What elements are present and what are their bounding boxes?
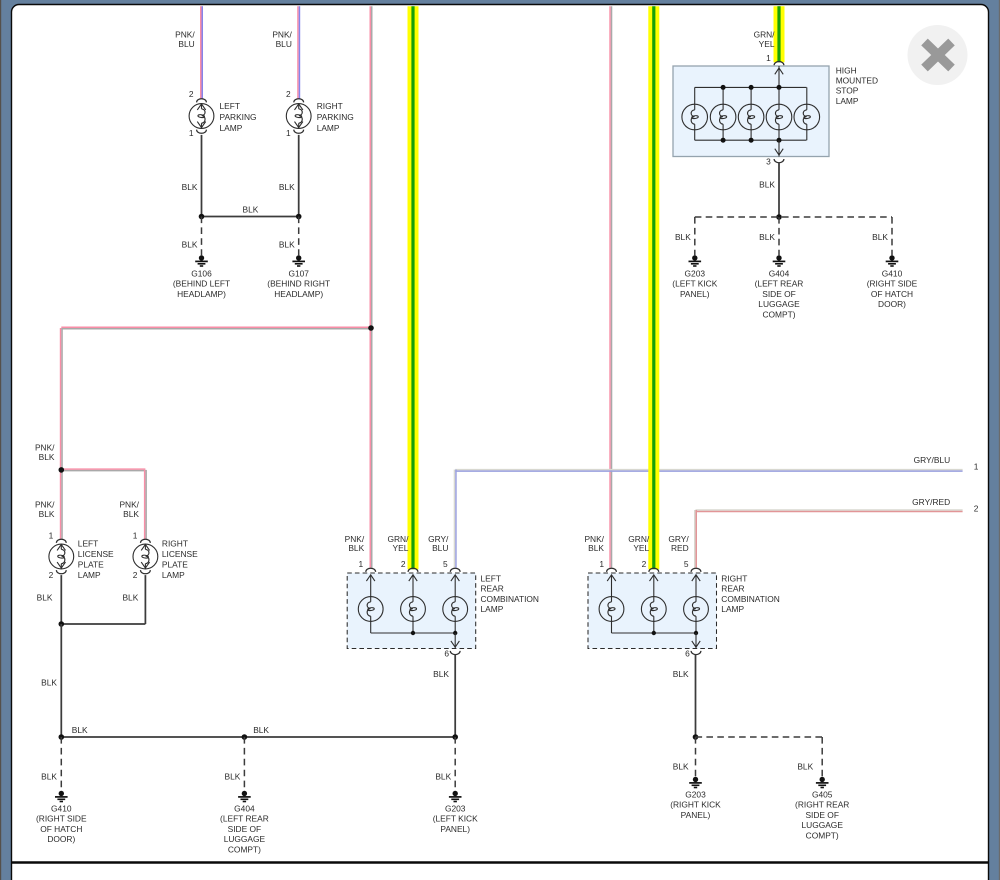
svg-text:PANEL): PANEL) <box>440 824 470 834</box>
svg-text:SIDE OF: SIDE OF <box>228 824 262 834</box>
svg-text:BLU: BLU <box>178 39 194 49</box>
svg-text:COMBINATION: COMBINATION <box>481 594 539 604</box>
svg-text:DOOR): DOOR) <box>878 299 906 309</box>
svg-text:BLK: BLK <box>123 509 139 519</box>
svg-text:BLK: BLK <box>675 232 691 242</box>
wire PNK/BLK to right license plate lamp <box>61 468 145 470</box>
svg-text:BLK: BLK <box>39 509 55 519</box>
svg-text:1: 1 <box>599 559 604 569</box>
ground G405 <box>820 777 825 782</box>
ground G410 (bottom) <box>59 791 64 796</box>
svg-text:1: 1 <box>133 531 138 541</box>
svg-text:LICENSE: LICENSE <box>78 549 114 559</box>
svg-text:REAR: REAR <box>481 584 504 594</box>
svg-text:YEL: YEL <box>393 543 409 553</box>
wire BLK below left parking lamp <box>201 135 203 217</box>
ground G404 (stop lamp) <box>776 255 781 260</box>
lamp assembly LEFT REAR COMBINATION LAMP <box>347 573 476 649</box>
svg-text:BLK: BLK <box>41 771 57 781</box>
svg-text:BLK: BLK <box>433 669 449 679</box>
node license lamp grounds join <box>59 621 65 627</box>
svg-text:OF HATCH: OF HATCH <box>871 289 913 299</box>
svg-text:BLK: BLK <box>435 771 451 781</box>
wire PNK/BLK to right rear combination lamp pin 1 <box>609 6 611 568</box>
lamp LEFT PARKING LAMP <box>189 99 214 134</box>
svg-text:G203: G203 <box>685 269 706 279</box>
svg-text:GRY/RED: GRY/RED <box>912 497 950 507</box>
svg-text:PLATE: PLATE <box>162 560 188 570</box>
svg-text:BLK: BLK <box>225 771 241 781</box>
connector arc pin 3 stop lamp <box>774 159 784 163</box>
wire BLK dashed bus to G405 <box>696 736 823 738</box>
svg-text:RIGHT: RIGHT <box>317 101 343 111</box>
svg-text:BLK: BLK <box>243 204 259 214</box>
wire BLK dashed to G405 <box>821 737 823 776</box>
lamp assembly RIGHT REAR COMBINATION LAMP <box>588 573 717 649</box>
svg-text:LUGGAGE: LUGGAGE <box>801 820 843 830</box>
wire BLK dashed to G404 <box>243 737 245 791</box>
svg-text:(RIGHT KICK: (RIGHT KICK <box>670 800 721 810</box>
ground G107 <box>296 255 301 260</box>
wire BLK dashed to G107 <box>298 217 300 256</box>
wire BLK dashed to G203 <box>454 737 456 791</box>
svg-text:(RIGHT SIDE: (RIGHT SIDE <box>867 279 918 289</box>
svg-text:G405: G405 <box>812 790 833 800</box>
svg-text:LAMP: LAMP <box>78 570 101 580</box>
svg-text:RIGHT: RIGHT <box>162 539 188 549</box>
svg-text:LAMP: LAMP <box>317 123 340 133</box>
svg-text:5: 5 <box>684 559 689 569</box>
svg-text:1: 1 <box>189 128 194 138</box>
svg-text:(RIGHT SIDE: (RIGHT SIDE <box>36 814 87 824</box>
wire PNK/BLK branch to license lamps <box>61 326 371 328</box>
svg-text:1: 1 <box>766 53 771 63</box>
svg-text:G203: G203 <box>685 790 706 800</box>
connector arcs pins 1,2,5 <box>366 568 376 572</box>
svg-text:BLK: BLK <box>122 592 138 602</box>
wire BLK dashed to G203 <box>694 217 696 255</box>
wire PNK/BLK to left license plate lamp <box>60 470 62 539</box>
wire BLK below stop lamp <box>778 163 780 217</box>
wire PNK/BLU to left parking lamp <box>200 6 202 98</box>
svg-text:BLK: BLK <box>588 543 604 553</box>
svg-text:LEFT: LEFT <box>481 574 501 584</box>
svg-text:HEADLAMP): HEADLAMP) <box>274 289 323 299</box>
svg-text:BLK: BLK <box>41 677 57 687</box>
svg-text:BLK: BLK <box>673 761 689 771</box>
svg-text:G404: G404 <box>769 269 790 279</box>
svg-text:BLK: BLK <box>759 179 775 189</box>
wire BLK below right rear combination lamp <box>695 654 697 737</box>
node at right parking lamp ground join <box>296 214 302 220</box>
svg-text:G410: G410 <box>882 269 903 279</box>
wire GRY/RED vertical drop to right rear combination lamp pin 5 <box>694 510 696 568</box>
wire BLK dashed to G203 (right kick) <box>695 737 697 776</box>
svg-text:COMPT): COMPT) <box>762 309 795 319</box>
svg-text:(LEFT KICK: (LEFT KICK <box>672 279 717 289</box>
node license lamp feed split <box>59 467 65 473</box>
ground G106 <box>199 255 204 260</box>
svg-text:PANEL): PANEL) <box>681 810 711 820</box>
connector arc pin 1 stop lamp <box>774 61 784 65</box>
connector arc pin 6 <box>450 651 460 655</box>
page separator line <box>11 861 989 864</box>
svg-text:G404: G404 <box>234 804 255 814</box>
svg-text:RIGHT: RIGHT <box>721 574 747 584</box>
svg-text:(LEFT REAR: (LEFT REAR <box>220 814 269 824</box>
svg-text:BLK: BLK <box>182 239 198 249</box>
svg-text:G410: G410 <box>51 804 72 814</box>
svg-text:G107: G107 <box>288 269 309 279</box>
lamp RIGHT PARKING LAMP <box>286 99 311 134</box>
svg-text:1: 1 <box>974 461 979 471</box>
ground G203 (right kick) <box>693 777 698 782</box>
svg-text:3: 3 <box>766 157 771 167</box>
svg-text:6: 6 <box>444 649 449 659</box>
svg-text:6: 6 <box>685 649 690 659</box>
wire GRY/BLU vertical drop to left rear combination lamp pin 5 <box>453 470 455 568</box>
svg-text:MOUNTED: MOUNTED <box>836 76 878 86</box>
svg-text:BLK: BLK <box>348 543 364 553</box>
wire BLK dashed bus to grounds <box>695 216 892 218</box>
svg-text:5: 5 <box>443 559 448 569</box>
svg-text:LAMP: LAMP <box>836 96 859 106</box>
node PNK/BLK branch <box>368 325 374 331</box>
wire GRN/YEL to high mounted stop lamp pin 1 <box>774 6 785 62</box>
svg-text:GRY/BLU: GRY/BLU <box>914 455 951 465</box>
wire BLK below left license lamp <box>60 575 62 624</box>
svg-text:BLK: BLK <box>759 232 775 242</box>
svg-text:SIDE OF: SIDE OF <box>805 810 839 820</box>
wire PNK/BLK vertical feed <box>369 6 371 568</box>
wire GRN/YEL to right rear combination lamp pin 2 <box>648 6 659 569</box>
svg-text:1: 1 <box>286 128 291 138</box>
svg-text:BLK: BLK <box>279 239 295 249</box>
lamp RIGHT LICENSE PLATE LAMP <box>133 539 158 574</box>
svg-text:YEL: YEL <box>633 543 649 553</box>
svg-text:LICENSE: LICENSE <box>162 549 198 559</box>
svg-text:PLATE: PLATE <box>78 560 104 570</box>
svg-text:2: 2 <box>401 559 406 569</box>
svg-text:BLK: BLK <box>673 669 689 679</box>
svg-text:LUGGAGE: LUGGAGE <box>758 299 800 309</box>
svg-text:BLK: BLK <box>279 182 295 192</box>
svg-text:LAMP: LAMP <box>162 570 185 580</box>
svg-text:LAMP: LAMP <box>220 123 243 133</box>
svg-text:BLK: BLK <box>872 232 888 242</box>
wire GRY/RED horizontal to connector pin 2 <box>696 509 963 511</box>
svg-text:BLK: BLK <box>37 592 53 602</box>
node at left parking lamp ground join <box>199 214 205 220</box>
node right combination lamp ground split <box>693 734 699 740</box>
svg-text:1: 1 <box>49 531 54 541</box>
wire PNK/BLU to right parking lamp <box>297 6 299 98</box>
wire GRY/BLU horizontal to connector pin 1 <box>455 469 962 471</box>
svg-text:PARKING: PARKING <box>317 112 354 122</box>
svg-text:2: 2 <box>189 89 194 99</box>
svg-text:DOOR): DOOR) <box>47 834 75 844</box>
svg-text:HIGH: HIGH <box>836 65 857 75</box>
svg-text:2: 2 <box>642 559 647 569</box>
svg-text:COMPT): COMPT) <box>806 830 839 840</box>
wire BLK below right parking lamp <box>298 135 300 217</box>
svg-text:LAMP: LAMP <box>481 604 504 614</box>
svg-text:LAMP: LAMP <box>721 604 744 614</box>
connector arcs pins 1,2,5 <box>607 568 617 572</box>
wire BLK ground bus (bottom left) <box>61 736 455 738</box>
svg-text:BLK: BLK <box>39 452 55 462</box>
svg-text:(RIGHT REAR: (RIGHT REAR <box>795 800 849 810</box>
svg-text:1: 1 <box>359 559 364 569</box>
svg-text:(LEFT KICK: (LEFT KICK <box>433 814 478 824</box>
wire BLK dashed to G410 <box>60 737 62 791</box>
svg-text:BLK: BLK <box>797 761 813 771</box>
node stop lamp ground split <box>776 214 782 220</box>
svg-text:2: 2 <box>133 570 138 580</box>
svg-text:RED: RED <box>671 543 689 553</box>
svg-text:LEFT: LEFT <box>220 101 240 111</box>
svg-text:BLK: BLK <box>253 725 269 735</box>
wire BLK joining parking lamp grounds <box>202 216 299 218</box>
svg-text:2: 2 <box>49 570 54 580</box>
wire BLK below left rear combination lamp <box>454 654 456 737</box>
svg-text:REAR: REAR <box>721 584 744 594</box>
svg-text:G106: G106 <box>191 269 212 279</box>
wire BLK below right license lamp <box>144 575 146 624</box>
svg-text:2: 2 <box>286 89 291 99</box>
svg-text:(BEHIND LEFT: (BEHIND LEFT <box>173 279 230 289</box>
wire BLK dashed to G106 <box>201 217 203 256</box>
wire BLK dashed to G404 <box>778 217 780 255</box>
svg-text:LEFT: LEFT <box>78 539 98 549</box>
svg-text:BLU: BLU <box>432 543 448 553</box>
svg-text:G203: G203 <box>445 804 466 814</box>
wire GRN/YEL to left rear combination lamp pin 2 <box>408 6 419 569</box>
svg-text:COMBINATION: COMBINATION <box>721 594 779 604</box>
svg-text:BLK: BLK <box>72 725 88 735</box>
lamp assembly HIGH MOUNTED STOP LAMP <box>673 66 829 157</box>
connector arc pin 6 <box>691 651 701 655</box>
svg-text:STOP: STOP <box>836 86 859 96</box>
svg-text:SIDE OF: SIDE OF <box>762 289 796 299</box>
svg-text:COMPT): COMPT) <box>228 844 261 854</box>
svg-text:YEL: YEL <box>759 39 775 49</box>
lamp LEFT LICENSE PLATE LAMP <box>49 539 74 574</box>
ground G203 (stop lamp) <box>692 255 697 260</box>
svg-text:BLK: BLK <box>182 182 198 192</box>
svg-text:PARKING: PARKING <box>220 112 257 122</box>
ground G404 (bottom) <box>242 791 247 796</box>
svg-text:(LEFT REAR: (LEFT REAR <box>755 279 804 289</box>
svg-text:OF HATCH: OF HATCH <box>40 824 82 834</box>
ground G410 (stop lamp) <box>889 255 894 260</box>
wire BLK dashed to G410 <box>891 217 893 255</box>
node G410 drop <box>59 734 65 740</box>
svg-text:(BEHIND RIGHT: (BEHIND RIGHT <box>267 279 330 289</box>
svg-text:PANEL): PANEL) <box>680 289 710 299</box>
node G203 drop <box>452 734 458 740</box>
svg-text:2: 2 <box>974 504 979 514</box>
svg-text:LUGGAGE: LUGGAGE <box>224 834 266 844</box>
node G404 drop <box>242 734 248 740</box>
ground G203 (bottom) <box>453 791 458 796</box>
wire BLK down to ground join <box>60 624 62 737</box>
svg-text:BLU: BLU <box>276 39 292 49</box>
close button <box>908 25 968 85</box>
svg-text:HEADLAMP): HEADLAMP) <box>177 289 226 299</box>
